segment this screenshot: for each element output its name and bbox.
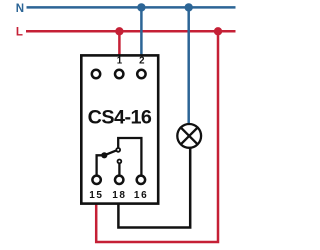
wire terminal 18 to lamp (black) <box>118 149 190 228</box>
svg-text:2: 2 <box>139 56 144 67</box>
svg-text:1: 1 <box>117 56 123 67</box>
wire N line (blue horizontal) <box>27 6 236 9</box>
contact: wire NO to terminal 18 <box>118 164 120 175</box>
terminal 18 <box>115 176 123 184</box>
contact: pivot junction dot <box>101 152 107 158</box>
lamp E1 <box>177 124 201 148</box>
junction dot on L at right drop <box>214 27 222 35</box>
wire N to terminal 2 (blue vertical) <box>140 7 143 56</box>
terminal 1 <box>115 70 123 78</box>
junction dot on N at lamp feed <box>185 3 193 11</box>
wire L to lamp return (red right drop) <box>96 31 218 242</box>
contact: switch arm <box>104 151 116 156</box>
contact: NO point (lower small circle) <box>118 160 122 164</box>
wire L line (red horizontal) <box>26 30 236 33</box>
junction dot on N at terminal 2 feed <box>137 3 145 11</box>
svg-text:L: L <box>16 26 23 38</box>
svg-text:16: 16 <box>134 190 148 201</box>
wire N to lamp (blue vertical right) <box>187 7 190 124</box>
svg-text:CS4-16: CS4-16 <box>88 107 152 129</box>
junction dot on L at terminal 1 feed <box>115 27 123 35</box>
terminal A1 (unlabeled top-left) <box>92 70 100 78</box>
terminal 16 <box>137 176 145 184</box>
terminal 15 <box>92 176 100 184</box>
contact: common lead from terminal 15 <box>97 155 105 175</box>
contact: NC point (upper small circle) <box>116 148 120 152</box>
terminal 2 <box>137 70 145 78</box>
relay module CS4-16 body <box>81 55 158 203</box>
svg-text:18: 18 <box>112 190 126 201</box>
wire L to terminal 1 (red vertical) <box>118 31 121 56</box>
svg-text:15: 15 <box>89 190 103 201</box>
svg-text:N: N <box>16 3 24 15</box>
contact: wire 16 to NC (top bridge) <box>118 138 141 175</box>
